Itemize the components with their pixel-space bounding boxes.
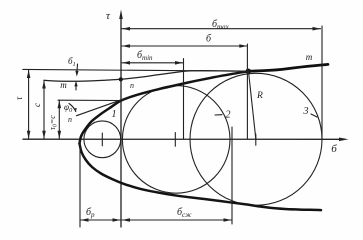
envelope lower branch	[80, 144, 322, 211]
svg-text:б: б	[331, 143, 337, 155]
horizontal line L1 tau level	[23, 69, 249, 71]
svg-text:б: б	[206, 34, 212, 45]
svg-text:τ0=с: τ0=с	[48, 115, 59, 130]
envelope upper branch	[80, 71, 249, 143]
dimension tau vertical	[27, 70, 31, 139]
tau axis	[119, 10, 123, 228]
leader dash for circle 2 label	[215, 114, 222, 116]
svg-text:τ: τ	[14, 96, 24, 100]
svg-text:бmin: бmin	[137, 50, 153, 62]
svg-text:1: 1	[112, 109, 117, 120]
node tangency dot on circle 3	[246, 69, 251, 74]
delta1 lower arrow	[74, 81, 77, 90]
svg-text:бр: бр	[86, 207, 95, 219]
extension line at sigma_max right	[321, 26, 323, 139]
horizontal line L3 tau0 level	[58, 99, 121, 101]
circle 1	[84, 121, 121, 158]
svg-text:бmax: бmax	[212, 19, 230, 31]
dimension c vertical	[42, 81, 46, 139]
dimension tau0 vertical	[58, 100, 62, 139]
dimension sigma_p bottom	[81, 218, 121, 222]
svg-text:2: 2	[226, 110, 231, 121]
svg-text:τ: τ	[106, 10, 111, 22]
svg-text:с: с	[32, 103, 42, 107]
dimension sigma_szh bottom	[122, 218, 232, 222]
svg-text:б1: б1	[68, 56, 76, 68]
dimension sigma_max line	[122, 27, 321, 31]
svg-text:3: 3	[303, 106, 309, 117]
svg-text:m: m	[306, 52, 313, 62]
extension line sigma_min right	[183, 59, 185, 139]
svg-text:бсж: бсж	[177, 207, 192, 219]
radius R line	[249, 72, 256, 139]
node dot on tau axis (c intercept)	[119, 77, 123, 81]
dimension sigma line	[122, 44, 247, 48]
leader dash for circle 3 label	[311, 114, 317, 117]
extension line sigma_p left	[79, 141, 81, 227]
tangent line m-n thick right segment	[249, 64, 329, 71]
svg-text:φ0: φ0	[64, 102, 73, 114]
circle 3	[190, 73, 322, 205]
center tick circle 2	[174, 133, 176, 147]
extension line sigma_szh right	[231, 127, 233, 224]
tangent line m-n thin part	[44, 71, 249, 82]
phi0 angle arc arrow	[69, 104, 76, 112]
circle 2	[122, 86, 230, 194]
steep tangent line at tau axis crossing	[77, 99, 124, 116]
dimension sigma_min line	[122, 61, 183, 65]
svg-text:R: R	[256, 91, 263, 101]
svg-text:п: п	[68, 115, 72, 124]
center tick circle 3	[255, 134, 257, 145]
delta1 upper arrow	[75, 64, 78, 77]
svg-text:m: m	[60, 80, 67, 90]
center tick circle 1	[101, 133, 103, 146]
extension line through tangency dot	[246, 44, 248, 139]
svg-text:п: п	[130, 81, 134, 90]
sigma axis	[23, 138, 349, 142]
